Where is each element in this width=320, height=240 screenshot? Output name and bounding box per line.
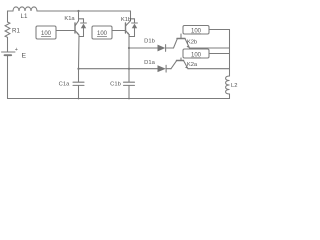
wire R1 to battery (7, 38, 9, 52)
diode D1a (158, 65, 172, 72)
svg-text:L2: L2 (231, 83, 237, 89)
driver block 100 for K1a (36, 26, 56, 39)
battery E plate long (2, 51, 16, 53)
wire right rail upper (229, 30, 231, 77)
capacitor C1a (73, 69, 84, 99)
svg-text:100: 100 (41, 31, 52, 37)
inductor L2 (226, 76, 230, 94)
wire bottom rail (8, 98, 230, 100)
transistor K2a (171, 58, 188, 69)
inductor L1 (13, 7, 37, 11)
driver block 100 for K2b (183, 26, 209, 35)
svg-text:D1b: D1b (144, 39, 155, 45)
node D1b branch (128, 47, 130, 49)
svg-text:C1a: C1a (59, 82, 70, 88)
battery E plate short (5, 54, 12, 56)
wire K2a block to right rail (209, 53, 230, 55)
svg-text:100: 100 (191, 53, 202, 59)
svg-text:K2a: K2a (187, 62, 198, 68)
wire top rail (37, 10, 131, 12)
wire top rail left stub (8, 10, 14, 12)
wire base lead K1a (56, 30, 75, 32)
node top rail K1a junction (77, 10, 79, 12)
svg-text:K2b: K2b (187, 40, 197, 46)
wire K1a emitter to middle rail (78, 35, 81, 69)
capacitor C1b (124, 69, 135, 99)
wire K1b emitter down (128, 35, 130, 69)
wire middle rail (79, 68, 158, 70)
node K1b branch on middle rail (128, 68, 130, 70)
wire top rail corner to K1b (130, 11, 132, 21)
driver block 100 for K2a (183, 49, 209, 58)
transistor K1b (126, 21, 131, 35)
svg-text:R1: R1 (12, 28, 20, 35)
driver block 100 for K1b (92, 26, 112, 39)
wire K2a emitter to right rail (188, 68, 230, 70)
transistor K2b (174, 34, 190, 48)
transistor K1a (75, 11, 79, 35)
diode across K1a (79, 19, 87, 37)
svg-text:E: E (22, 53, 27, 60)
svg-text:K1b: K1b (121, 17, 131, 23)
node C1b bottom junction (128, 98, 130, 100)
wire base lead K1b (112, 30, 126, 32)
wire D1b branch (129, 47, 158, 49)
wire left rail lower (7, 56, 9, 99)
diode across K1b (129, 19, 137, 37)
svg-text:K1a: K1a (64, 16, 75, 22)
resistor R1 (5, 22, 10, 38)
wire K2b block to right rail (209, 29, 230, 31)
wire left rail upper (7, 11, 9, 22)
svg-text:L1: L1 (21, 13, 28, 20)
node K1a emitter on middle rail (77, 68, 79, 70)
svg-text:+: + (15, 47, 18, 53)
svg-text:100: 100 (191, 29, 202, 35)
node C1a bottom junction (78, 98, 80, 100)
svg-text:C1b: C1b (110, 82, 121, 88)
svg-text:100: 100 (97, 31, 108, 37)
wire K2b emitter to right rail (190, 47, 230, 49)
svg-text:D1a: D1a (144, 60, 155, 66)
wire right rail lower (229, 94, 231, 99)
diode D1b (158, 45, 174, 52)
